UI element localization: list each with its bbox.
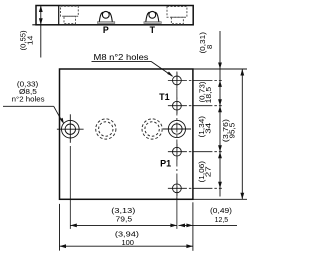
svg-text:95,5: 95,5 bbox=[228, 123, 237, 139]
side view internal edge bbox=[58, 6, 60, 25]
port boss P dome bbox=[99, 12, 112, 21]
dimension 14 arrow down bbox=[39, 18, 43, 25]
svg-text:(0,31): (0,31) bbox=[198, 32, 207, 54]
M8 hole top bbox=[173, 76, 182, 85]
side view bottom edge overshoot bbox=[32, 24, 36, 26]
hole column extension to dimension row bbox=[176, 197, 178, 229]
mounting hole right (ø8,5) bbox=[163, 120, 191, 137]
T1 center line bbox=[168, 105, 222, 107]
svg-text:M8 n°2 holes: M8 n°2 holes bbox=[94, 53, 149, 62]
side view plate outline bbox=[36, 6, 193, 25]
port hole P1 bbox=[173, 147, 182, 156]
M8 hole bottom bbox=[173, 184, 182, 193]
dimension row 100 bbox=[60, 245, 193, 247]
hole column center line bbox=[176, 72, 178, 197]
hole cross vertical T1 bbox=[176, 98, 178, 114]
dimension row 79,5 / 12,5 bbox=[70, 224, 177, 226]
bottom edge extension line bbox=[193, 198, 247, 200]
svg-text:18,5: 18,5 bbox=[204, 87, 213, 104]
svg-text:79,5: 79,5 bbox=[116, 215, 133, 224]
chain arrow at bottom M8 bbox=[218, 182, 222, 189]
port hole T1 bbox=[173, 101, 182, 110]
svg-text:34: 34 bbox=[203, 122, 212, 134]
svg-text:T1: T1 bbox=[159, 92, 170, 102]
hole cross vertical P1 bbox=[176, 144, 178, 160]
dimension 14 thickness line bbox=[40, 6, 42, 58]
chain arrow up at M8 bbox=[218, 80, 222, 87]
svg-text:P: P bbox=[103, 25, 109, 35]
port boss T base bbox=[144, 22, 161, 24]
extension line left edge bbox=[59, 204, 61, 251]
dimension 12,5 outside arrows bbox=[179, 224, 238, 226]
hole cross vertical M8 bottom bbox=[176, 180, 178, 196]
M8 bottom center line bbox=[168, 187, 222, 189]
top edge extension line bbox=[193, 68, 247, 70]
port boss P base bbox=[97, 22, 114, 24]
svg-text:T: T bbox=[150, 25, 156, 35]
P1 center line bbox=[168, 151, 222, 153]
svg-text:(0,49): (0,49) bbox=[210, 206, 232, 215]
overall height dimension line 95,5 bbox=[241, 69, 243, 199]
chain arrow down at top edge bbox=[218, 63, 222, 70]
hidden screw block left (dashed) bbox=[61, 6, 79, 23]
extension line right edge bbox=[192, 202, 194, 251]
svg-text:8: 8 bbox=[205, 45, 214, 49]
svg-text:14: 14 bbox=[25, 35, 34, 45]
chain arrows at T1 bbox=[218, 99, 222, 106]
hidden cavity circle 2 (dashed) bbox=[142, 119, 162, 139]
svg-text:27: 27 bbox=[203, 166, 212, 177]
hidden screw block right (dashed) bbox=[167, 7, 187, 24]
dimension 14 arrow up bbox=[39, 6, 43, 13]
port boss T dome bbox=[146, 12, 159, 21]
svg-text:100: 100 bbox=[121, 238, 134, 247]
port boss P hole bbox=[102, 11, 109, 18]
svg-text:P1: P1 bbox=[160, 158, 171, 168]
svg-text:n°2 holes: n°2 holes bbox=[12, 95, 45, 104]
chain arrows at P1 bbox=[218, 145, 222, 152]
port boss T hole bbox=[149, 11, 156, 18]
M8 top center line bbox=[168, 79, 222, 81]
right chain dimension line bbox=[219, 31, 221, 197]
mounting hole left (ø8,5) bbox=[57, 114, 84, 143]
hole cross vertical M8 top bbox=[176, 72, 178, 88]
front view plate outline bbox=[60, 69, 193, 199]
dimension 12,5 right arrow bbox=[186, 224, 193, 228]
mounting hole left extension line down bbox=[69, 146, 71, 229]
hidden cavity circle 1 (dashed) bbox=[96, 119, 116, 139]
svg-text:12,5: 12,5 bbox=[215, 215, 229, 224]
